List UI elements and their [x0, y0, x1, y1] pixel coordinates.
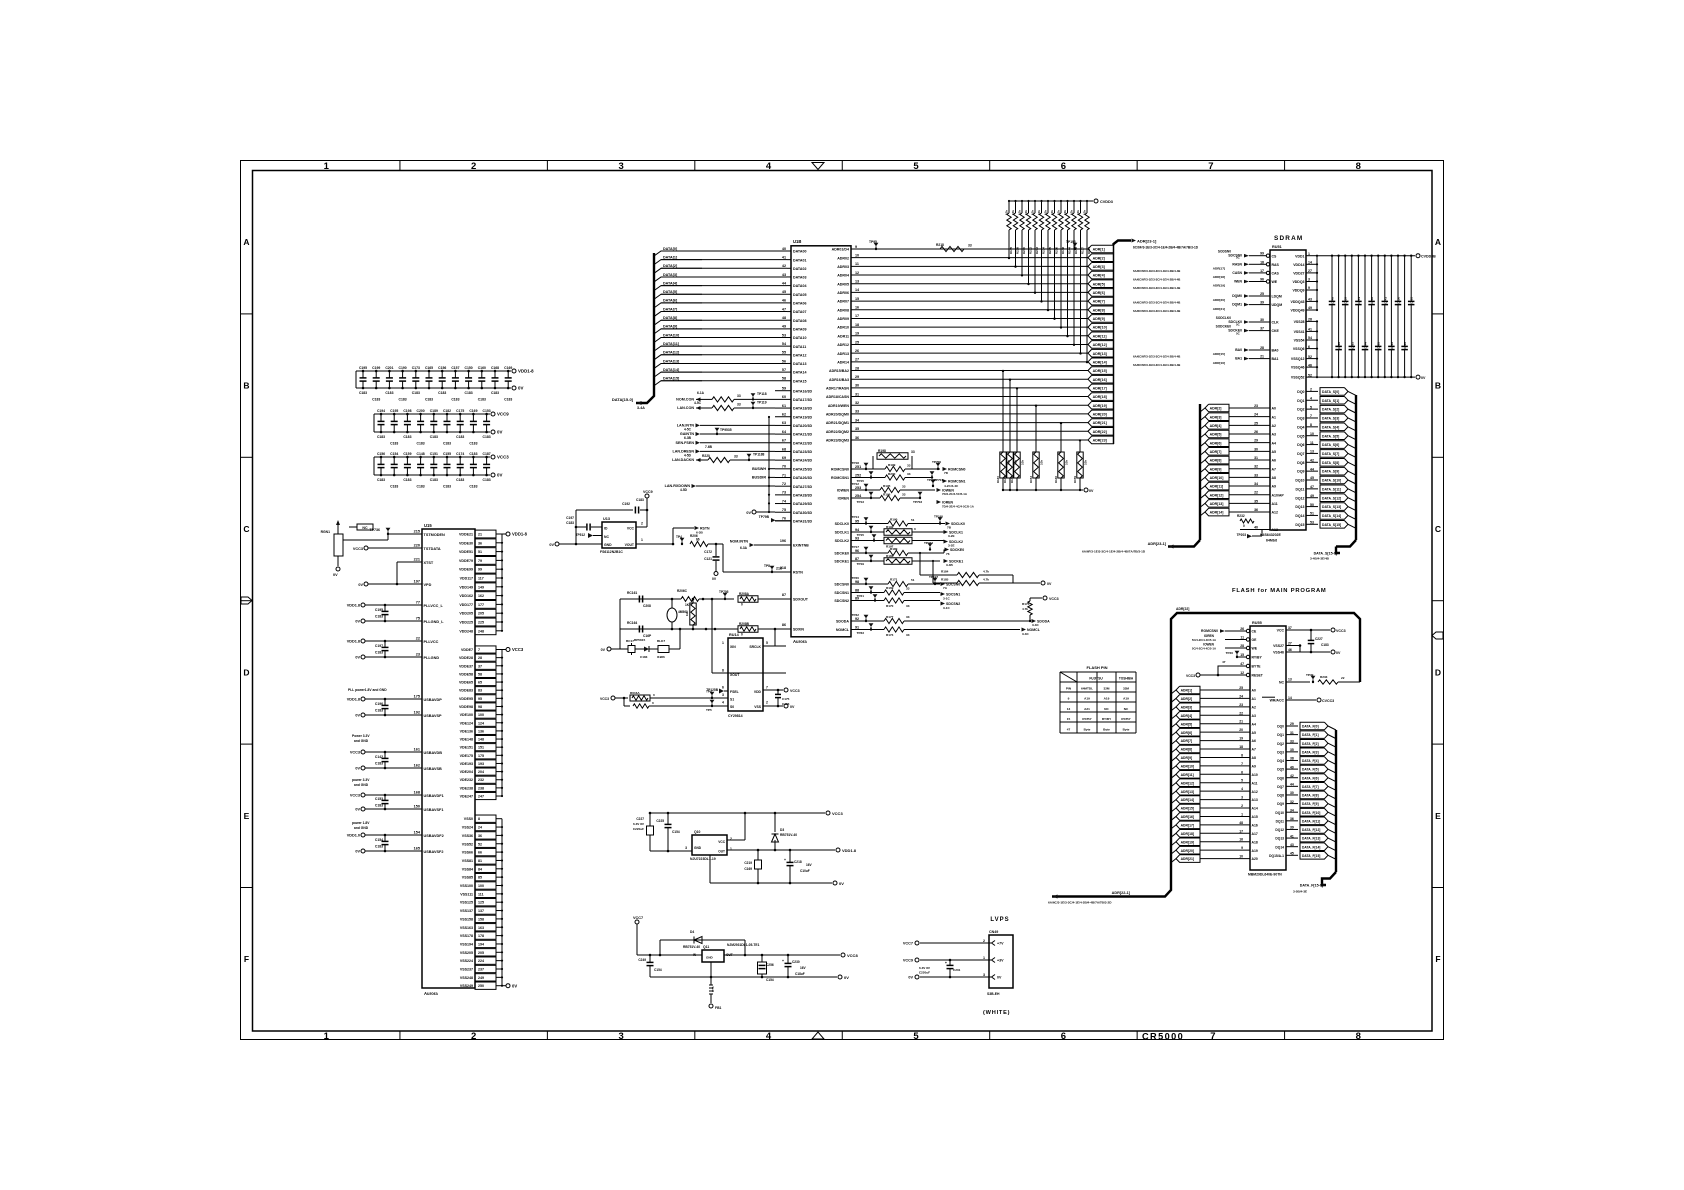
svg-text:VSS158: VSS158	[460, 917, 473, 921]
pin 194 VSS194 U15	[475, 940, 496, 947]
capacitor C227 reg1	[649, 813, 651, 826]
svg-text:NOMCL: NOMCL	[836, 628, 850, 632]
svg-text:USBAVSB: USBAVSB	[424, 767, 443, 771]
pin DATA20/3D U1B	[775, 424, 791, 426]
pin DATA05 U1B	[787, 293, 791, 295]
resistor R615B	[633, 704, 649, 708]
node VCC7 reg2	[635, 920, 639, 924]
svg-text:DQ11: DQ11	[1296, 487, 1305, 491]
svg-text:RC161: RC161	[627, 591, 637, 595]
svg-text:31: 31	[855, 392, 859, 396]
pin DATA03 U1B	[787, 276, 791, 278]
svg-text:16V: 16V	[800, 966, 807, 970]
svg-text:ADR[5]: ADR[5]	[1093, 282, 1105, 286]
node ADR[5] flag	[1088, 280, 1114, 288]
testpoint TP13	[869, 492, 874, 496]
svg-text:DATA26/3D: DATA26/3D	[793, 476, 812, 480]
node VDD1.8 out	[836, 848, 840, 852]
svg-text:TP39: TP39	[1306, 673, 1314, 677]
node DATA_S[4] flag	[1320, 423, 1348, 431]
svg-text:FB1: FB1	[715, 1006, 722, 1010]
svg-text:33: 33	[902, 485, 906, 489]
resistor R206B 1K	[681, 597, 699, 602]
capacitor C183	[1410, 256, 1412, 302]
svg-text:DATA_S[1]: DATA_S[1]	[1322, 399, 1339, 403]
testpoint TP197	[933, 578, 938, 582]
node 0V	[361, 655, 365, 659]
node SDCKE0	[908, 552, 944, 554]
node FB1	[709, 1004, 713, 1008]
svg-text:36: 36	[478, 834, 482, 838]
svg-text:A1: A1	[1272, 415, 1277, 419]
node ROMCSN1	[943, 479, 948, 483]
svg-text:3-3C: 3-3C	[1022, 632, 1029, 636]
svg-text:ADR[19]: ADR[19]	[1093, 404, 1107, 408]
svg-text:41: 41	[782, 255, 786, 259]
capacitor C195	[362, 371, 364, 378]
svg-text:A8: A8	[1272, 476, 1277, 480]
svg-text:VSS27: VSS27	[1273, 644, 1284, 648]
resistor R140 termination	[1002, 371, 1004, 452]
diode D4 RB751V-40	[660, 939, 745, 941]
capacitor C154	[393, 457, 395, 464]
svg-text:DATA31/3D: DATA31/3D	[793, 520, 812, 524]
crystal X1 4M560	[671, 598, 674, 601]
pin 99 CS U51	[1266, 254, 1269, 257]
svg-text:ADR[23-1]: ADR[23-1]	[1148, 542, 1167, 546]
svg-text:47: 47	[1310, 485, 1314, 489]
svg-text:0V: 0V	[355, 620, 360, 624]
svg-text:1: 1	[641, 538, 643, 542]
wire 0V rail sdram caps	[1317, 376, 1415, 378]
capacitor C154	[384, 834, 387, 837]
svg-text:0V: 0V	[746, 511, 751, 515]
svg-text:C227: C227	[1315, 637, 1323, 641]
svg-text:45: 45	[1310, 476, 1314, 480]
svg-text:CLK: CLK	[1272, 321, 1280, 325]
svg-text:13: 13	[1288, 678, 1292, 682]
svg-text:R184: R184	[941, 570, 949, 574]
svg-text:0: 0	[652, 701, 654, 705]
svg-text:C121: C121	[704, 557, 712, 561]
svg-text:24: 24	[1254, 413, 1258, 417]
svg-text:DQ13: DQ13	[1275, 837, 1284, 841]
svg-text:ADR[13]: ADR[13]	[1210, 502, 1224, 506]
svg-text:R144: R144	[1068, 247, 1072, 255]
svg-text:DATA28/3D: DATA28/3D	[793, 493, 812, 497]
testpoint TP17	[864, 547, 869, 551]
node ADR[19] flag flash	[1171, 842, 1176, 846]
svg-text:C385: C385	[1377, 342, 1381, 349]
node ADR[3] flag	[1088, 263, 1114, 271]
svg-text:A3: A3	[1272, 433, 1277, 437]
wire BYTE RESET to VCC3	[1196, 673, 1200, 677]
svg-text:ADR15/BA2: ADR15/BA2	[829, 369, 849, 373]
wire ADR[8] to A6	[1229, 459, 1270, 461]
svg-text:72: 72	[782, 482, 786, 486]
svg-text:DATA_S[10]: DATA_S[10]	[1322, 479, 1341, 483]
svg-text:OUT: OUT	[718, 850, 725, 854]
svg-text:43: 43	[782, 273, 786, 277]
svg-text:25: 25	[1260, 292, 1264, 296]
svg-text:ADR[4]: ADR[4]	[1181, 714, 1193, 718]
svg-text:C154: C154	[375, 838, 383, 842]
pin DATA27/3D U1B	[775, 485, 791, 487]
testpoint TP12	[864, 484, 869, 488]
svg-text:BC17: BC17	[626, 639, 634, 643]
svg-text:VCC9: VCC9	[497, 412, 509, 417]
svg-text:A18: A18	[1252, 840, 1258, 844]
wire cap bank top rail	[374, 413, 490, 415]
svg-text:C: C	[243, 524, 249, 534]
svg-text:2: 2	[766, 701, 768, 705]
svg-text:28: 28	[855, 366, 859, 370]
wire DATA[5]	[654, 294, 787, 299]
wire pin rail	[501, 819, 503, 986]
svg-text:C201: C201	[385, 366, 393, 370]
svg-text:C151: C151	[430, 452, 438, 456]
svg-text:36: 36	[1290, 817, 1294, 821]
pin 36 VSS36 U15	[475, 832, 496, 839]
svg-text:SDRAM: SDRAM	[1274, 235, 1303, 242]
svg-text:ADR12: ADR12	[837, 343, 849, 347]
svg-text:C183: C183	[430, 435, 438, 439]
wire CVDD3 rail	[1009, 200, 1093, 202]
svg-text:SDCSN1: SDCSN1	[834, 591, 849, 595]
svg-text:R190: R190	[890, 518, 898, 522]
svg-text:42: 42	[1290, 774, 1294, 778]
svg-text:0V: 0V	[355, 714, 360, 718]
svg-text:RC164: RC164	[627, 621, 637, 625]
pin 21 BA1 U51	[1255, 358, 1270, 360]
wire ADR[6] to A4	[1229, 442, 1270, 444]
node ADR[12] flag	[1088, 341, 1114, 349]
svg-text:32: 32	[1290, 800, 1294, 804]
node 0V	[361, 619, 365, 623]
pin 28 WE U55	[1246, 646, 1249, 649]
svg-text:15: 15	[1240, 653, 1244, 657]
svg-text:VDDE28: VDDE28	[459, 656, 473, 660]
capacitor C172	[715, 544, 717, 556]
diode D3 RB751V-40	[774, 812, 777, 815]
node ADR[18] flag flash	[1171, 833, 1176, 837]
resistor R208B boxed	[705, 628, 708, 631]
svg-text:NC: NC	[604, 535, 609, 539]
capacitor C197	[575, 510, 577, 544]
svg-text:0V: 0V	[497, 430, 502, 435]
svg-text:ADR[7]: ADR[7]	[1093, 300, 1105, 304]
svg-text:47: 47	[1067, 727, 1071, 731]
capacitor C169	[472, 414, 474, 421]
testpoint TP16	[872, 534, 877, 538]
resistor R616A boxed	[630, 695, 650, 701]
node 0V VPD	[364, 582, 368, 586]
svg-text:84: 84	[478, 867, 482, 871]
resistor R199 33	[851, 468, 885, 470]
capacitor C150	[468, 371, 470, 378]
testpoint TP332	[928, 543, 933, 547]
svg-text:DATA13: DATA13	[793, 362, 806, 366]
svg-text:VDD1.8: VDD1.8	[347, 640, 360, 644]
svg-text:TP19: TP19	[857, 562, 865, 566]
svg-text:49: 49	[1310, 494, 1314, 498]
svg-text:C175: C175	[456, 409, 464, 413]
svg-text:C195: C195	[375, 608, 383, 612]
svg-text:VSS163: VSS163	[460, 926, 473, 930]
svg-text:ADR[13]: ADR[13]	[1181, 790, 1194, 794]
svg-text:R196: R196	[883, 493, 891, 497]
svg-text:DQ10: DQ10	[1295, 479, 1304, 483]
svg-text:VSS84: VSS84	[462, 867, 473, 871]
node DATA_F[13] flag	[1300, 834, 1328, 842]
svg-text:XTST: XTST	[424, 561, 434, 565]
wire pin rail	[501, 534, 503, 631]
testpoint TP736	[343, 539, 388, 541]
svg-text:VDDE99: VDDE99	[459, 568, 473, 572]
svg-text:C183: C183	[782, 702, 790, 706]
svg-text:ADR[11]: ADR[11]	[1181, 773, 1194, 777]
svg-text:DQ9: DQ9	[1277, 802, 1284, 806]
resistor R190 51	[851, 523, 888, 525]
svg-text:44: 44	[1290, 783, 1294, 787]
svg-text:VSS125: VSS125	[460, 901, 473, 905]
node 0V unused pins	[752, 510, 756, 514]
svg-text:A10: A10	[1252, 773, 1258, 777]
pin DATA16/3D U1B	[775, 390, 791, 392]
node SDCLK1	[944, 530, 949, 534]
svg-text:DATA18/3D: DATA18/3D	[793, 407, 812, 411]
svg-text:ADR[18]: ADR[18]	[1181, 832, 1194, 836]
svg-text:10: 10	[855, 253, 859, 257]
svg-text:CN49: CN49	[989, 930, 998, 934]
svg-text:R233: R233	[1035, 247, 1039, 255]
node ADR[4] flag	[1088, 271, 1114, 279]
svg-text:10k: 10k	[1065, 460, 1069, 465]
svg-text:205: 205	[478, 951, 484, 955]
zone dividers top	[399, 161, 401, 171]
pin DATA22/3D U1B	[775, 442, 791, 444]
svg-text:33: 33	[906, 604, 910, 608]
wire ADR[13] to A11	[1229, 502, 1270, 504]
svg-text:A14: A14	[1252, 807, 1258, 811]
svg-text:ADR06: ADR06	[837, 291, 849, 295]
node ADR[6] flag	[1088, 289, 1114, 297]
svg-text:22: 22	[1239, 711, 1243, 715]
svg-text:TP197: TP197	[929, 575, 938, 579]
svg-text:ADR23/DQM3: ADR23/DQM3	[826, 439, 849, 443]
svg-text:VDD1: VDD1	[1295, 254, 1304, 258]
svg-text:ADR[10]: ADR[10]	[1181, 764, 1194, 768]
svg-text:VCC3: VCC3	[600, 697, 609, 701]
svg-text:193: 193	[478, 762, 484, 766]
svg-text:PLLVCC: PLLVCC	[424, 640, 439, 644]
svg-text:4: 4	[766, 1031, 772, 1042]
node DATA_F[15-0] label	[1322, 883, 1327, 887]
svg-text:TP95: TP95	[869, 240, 877, 244]
svg-text:DQ12: DQ12	[1275, 828, 1284, 832]
svg-text:32: 32	[855, 401, 859, 405]
svg-text:0V: 0V	[844, 975, 849, 980]
svg-text:+7V: +7V	[997, 942, 1004, 946]
svg-text:C183: C183	[372, 398, 380, 402]
svg-text:TP512: TP512	[576, 533, 586, 537]
svg-text:VDE124: VDE124	[460, 721, 473, 725]
node 0V	[491, 473, 495, 477]
svg-text:6: 6	[1061, 1031, 1066, 1042]
svg-text:5C/4-2C/4-4C/5-1A: 5C/4-2C/4-4C/5-1A	[1192, 647, 1216, 651]
svg-text:C183: C183	[636, 498, 644, 502]
node ADR[16] flag flash	[1171, 816, 1176, 820]
node DATA_F[6] flag	[1300, 774, 1328, 782]
svg-text:VSS205: VSS205	[460, 951, 473, 955]
svg-text:2: 2	[1241, 804, 1243, 808]
wire Q11 gnd	[710, 962, 712, 977]
svg-text:C201: C201	[953, 968, 961, 972]
pin DATA04 U1B	[787, 285, 791, 287]
svg-text:53: 53	[782, 333, 786, 337]
svg-text:0V: 0V	[497, 473, 502, 478]
svg-text:ADR[2]: ADR[2]	[1181, 697, 1193, 701]
border inner frame	[253, 171, 1433, 1032]
pin 98 VDDE98 U15	[475, 703, 496, 710]
svg-text:51: 51	[911, 518, 915, 522]
svg-text:11: 11	[1310, 441, 1314, 445]
svg-text:6.3V 8V: 6.3V 8V	[919, 966, 931, 970]
pin 28 VDDE28 U15	[475, 654, 496, 661]
svg-text:A7: A7	[1272, 467, 1277, 471]
svg-text:ADR[6]: ADR[6]	[1210, 441, 1222, 445]
svg-text:ADR[8]: ADR[8]	[1210, 459, 1222, 463]
svg-text:VSS28: VSS28	[1294, 320, 1305, 324]
svg-text:RB751V-40: RB751V-40	[683, 945, 700, 949]
pin 95 VDDE95 U15	[475, 695, 496, 702]
svg-text:R170: R170	[886, 604, 894, 608]
svg-text:43: 43	[1290, 843, 1294, 847]
node VCC3	[502, 649, 506, 651]
wire ADR[19] to A18 flash	[1200, 841, 1250, 843]
svg-text:TP1188: TP1188	[753, 453, 765, 457]
wire ADR[2] to A1 flash	[1200, 697, 1250, 699]
svg-text:DATA_F[14]: DATA_F[14]	[1302, 845, 1320, 849]
svg-text:A17: A17	[1252, 832, 1258, 836]
node ADR[1] flag	[1088, 245, 1114, 253]
svg-text:R143: R143	[1010, 476, 1014, 484]
svg-text:S1: S1	[730, 698, 734, 702]
svg-text:VSS46: VSS46	[1273, 651, 1284, 655]
node ADR[3] flag sdram	[1200, 417, 1205, 421]
node DATA_F[7] flag	[1300, 783, 1328, 791]
svg-text:CR5000: CR5000	[1142, 1032, 1184, 1042]
svg-text:CVDD3B: CVDD3B	[1421, 254, 1436, 258]
svg-text:VDE148: VDE148	[460, 738, 473, 742]
svg-text:0V: 0V	[355, 808, 360, 812]
svg-text:DATA_S[15-0]: DATA_S[15-0]	[1314, 552, 1337, 556]
wire DATA[11]	[654, 346, 787, 351]
svg-text:1: 1	[1241, 812, 1243, 816]
svg-text:SDCLK2: SDCLK2	[835, 539, 849, 543]
svg-text:C183: C183	[390, 485, 398, 489]
svg-text:0V: 0V	[355, 850, 360, 854]
node ADR[10] flag	[1088, 323, 1114, 331]
svg-text:3-2E: 3-2E	[948, 544, 955, 548]
resistor R235 10k pull-up	[1047, 200, 1049, 202]
svg-text:R145: R145	[1009, 247, 1013, 255]
svg-text:TP79B: TP79B	[759, 515, 770, 519]
svg-text:C183: C183	[465, 391, 473, 395]
svg-text:C183: C183	[425, 398, 433, 402]
svg-text:VSS: VSS	[754, 705, 762, 709]
svg-text:ADR[23]: ADR[23]	[1093, 439, 1107, 443]
svg-text:F: F	[244, 954, 249, 964]
svg-text:10k: 10k	[1005, 210, 1009, 215]
svg-text:35: 35	[1290, 748, 1294, 752]
node DATA_F[10] flag	[1300, 808, 1328, 816]
node 0V lvps	[915, 975, 919, 979]
svg-text:85: 85	[478, 876, 482, 880]
wire XTST	[397, 561, 422, 563]
svg-text:C183: C183	[399, 398, 407, 402]
svg-text:DATA_F[3]: DATA_F[3]	[1302, 750, 1319, 754]
svg-text:VSSQ6: VSSQ6	[1293, 347, 1305, 351]
testpoint TP39	[1311, 676, 1316, 680]
svg-text:VDD27: VDD27	[1293, 272, 1304, 276]
capacitor C168	[494, 371, 496, 378]
svg-text:64Mbit: 64Mbit	[1266, 539, 1278, 543]
svg-text:151: 151	[478, 746, 484, 750]
svg-text:C149: C149	[1331, 297, 1335, 304]
svg-text:VDDE83: VDDE83	[459, 689, 473, 693]
svg-text:124: 124	[478, 721, 484, 725]
svg-text:TP40: TP40	[1226, 651, 1234, 655]
svg-text:VDDE58: VDDE58	[459, 672, 473, 676]
svg-text:DATA_S[4]: DATA_S[4]	[1322, 425, 1339, 429]
svg-text:33: 33	[737, 403, 741, 407]
svg-text:VOUT: VOUT	[625, 543, 635, 547]
wire DATA[1]	[654, 260, 787, 265]
svg-text:ADR[10]: ADR[10]	[1093, 326, 1107, 330]
svg-text:28: 28	[1260, 346, 1264, 350]
svg-text:33: 33	[902, 493, 906, 497]
node ADR[15] flag flash	[1171, 808, 1176, 812]
svg-text:C10uF: C10uF	[800, 869, 810, 873]
svg-text:VCC: VCC	[1277, 629, 1285, 633]
border outer frame	[241, 161, 1444, 1040]
svg-text:0V: 0V	[549, 543, 554, 547]
node ADR[6] flag sdram	[1200, 443, 1205, 447]
capacitor C156	[380, 457, 382, 464]
svg-text:ADR[3]: ADR[3]	[1093, 265, 1105, 269]
pin 250 VSS249 U15	[475, 982, 496, 989]
svg-text:VDE238: VDE238	[460, 786, 473, 790]
svg-text:23: 23	[1239, 703, 1243, 707]
connector CN49 body	[989, 935, 1013, 988]
svg-text:150: 150	[414, 805, 420, 809]
svg-text:VDD1.8: VDD1.8	[842, 848, 857, 853]
svg-text:ADR[1]: ADR[1]	[1181, 689, 1193, 693]
svg-text:A0: A0	[1252, 689, 1256, 693]
svg-text:A12: A12	[1252, 790, 1258, 794]
svg-text:R177: R177	[886, 615, 894, 619]
svg-text:VCC9: VCC9	[643, 490, 653, 494]
svg-text:VDDQ43: VDDQ43	[1290, 300, 1304, 304]
svg-text:IOWEN: IOWEN	[837, 489, 850, 493]
svg-text:VDD: VDD	[754, 690, 762, 694]
capacitor C196	[384, 698, 387, 701]
svg-text:C183: C183	[456, 478, 464, 482]
svg-text:VDDE21: VDDE21	[459, 533, 473, 537]
svg-text:DATA[13]: DATA[13]	[663, 359, 680, 363]
svg-text:C183: C183	[375, 762, 383, 766]
